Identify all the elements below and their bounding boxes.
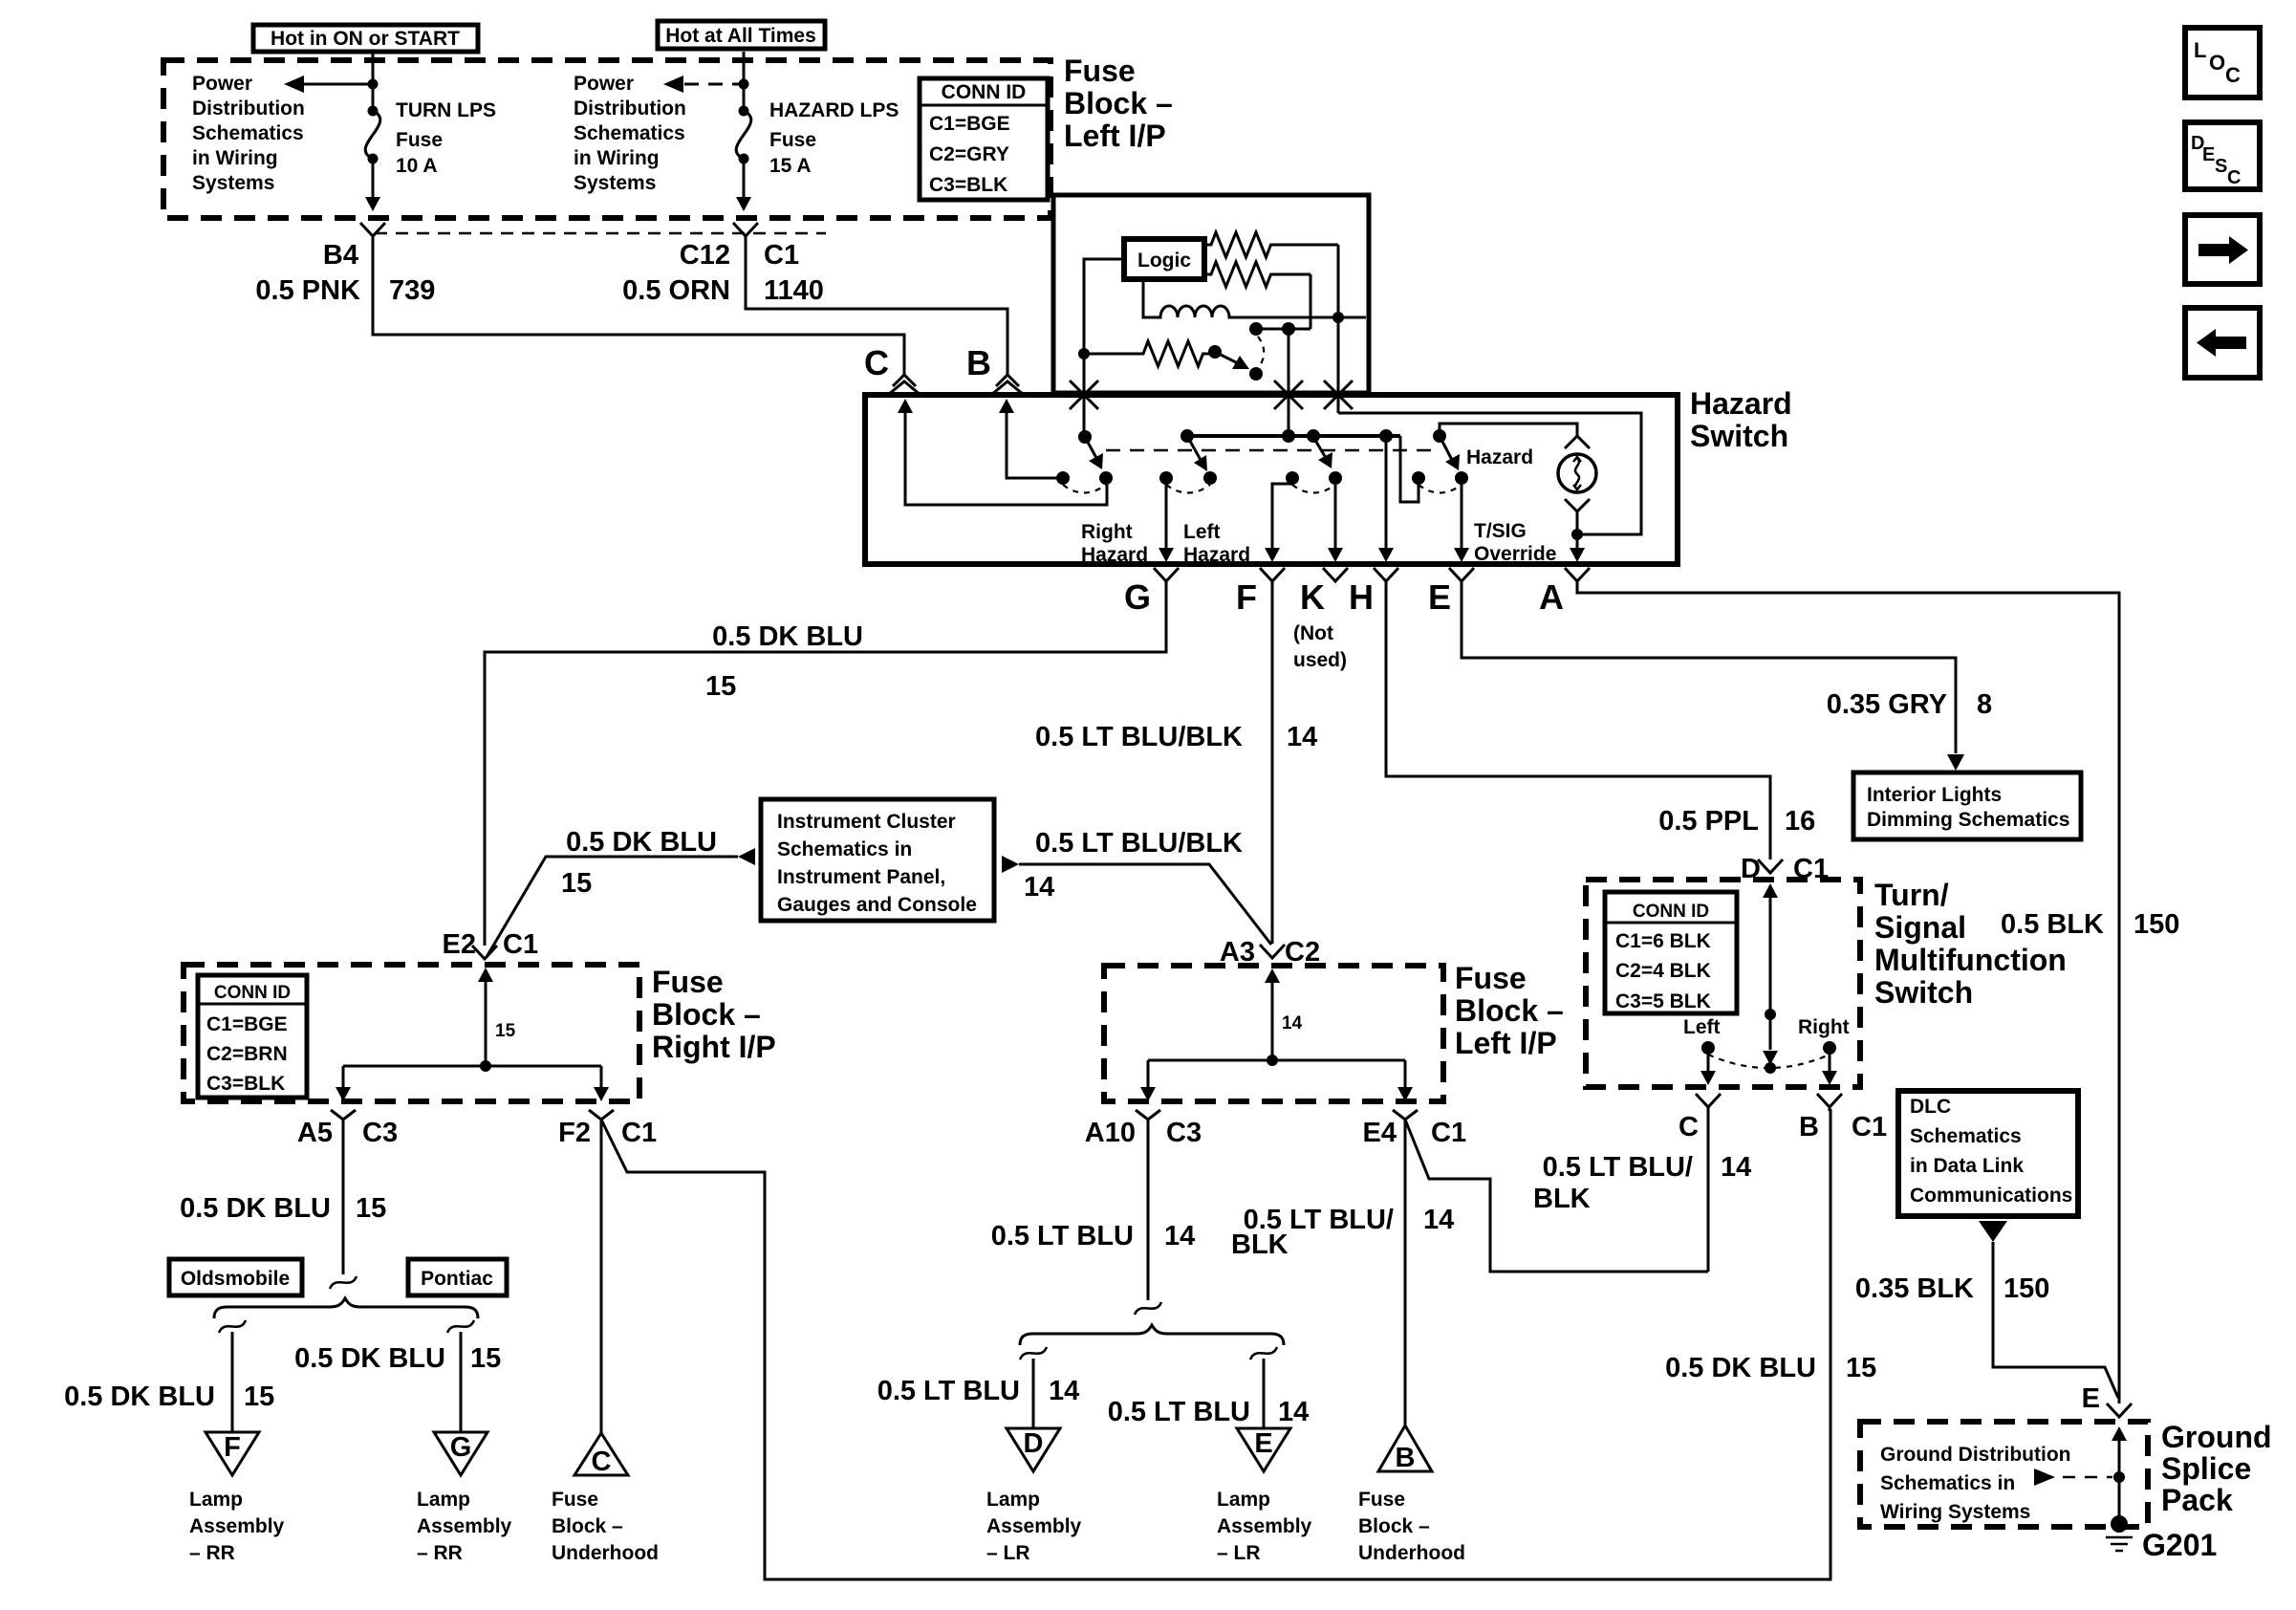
connector C into hazard switch	[888, 375, 921, 395]
svg-text:Underhood: Underhood	[1358, 1542, 1465, 1564]
resistor R2	[1204, 262, 1310, 287]
svg-text:C1: C1	[621, 1118, 657, 1148]
wiper pivot dot	[1208, 345, 1222, 359]
svg-text:CONN ID: CONN ID	[1633, 902, 1709, 922]
svg-text:O: O	[2209, 51, 2225, 75]
svg-text:Block –: Block –	[1455, 993, 1564, 1028]
svg-text:E: E	[2202, 144, 2215, 165]
junction dot	[1267, 1055, 1278, 1066]
dashed ground distribution arrow	[2034, 1469, 2112, 1486]
svg-text:E4: E4	[1363, 1118, 1397, 1148]
connector H	[1374, 568, 1398, 581]
svg-text:0.5 DK BLU: 0.5 DK BLU	[180, 1193, 331, 1224]
svg-text:E: E	[1254, 1428, 1272, 1459]
wire R2 right leg	[1310, 274, 1312, 329]
junction dot	[368, 79, 379, 90]
svg-text:H: H	[1349, 577, 1374, 617]
X crossing marker 1	[1070, 381, 1098, 409]
svg-text:C: C	[592, 1447, 612, 1477]
wiper dashed arc	[1258, 337, 1264, 367]
connector E4/C1	[1393, 1110, 1418, 1120]
svg-text:Left I/P: Left I/P	[1064, 119, 1166, 153]
fuse block left I/P dashed box	[163, 60, 1051, 218]
wire to lamp E (0.5 LT BLU 14)	[1263, 1359, 1266, 1428]
svg-text:15: 15	[470, 1343, 501, 1374]
hazard switch label	[1690, 386, 1792, 453]
svg-text:Distribution: Distribution	[192, 98, 305, 120]
brace RR lamps	[214, 1298, 478, 1318]
SW2 left contact	[1159, 471, 1173, 485]
connector A3/C2	[1260, 945, 1285, 958]
wire SW2 left contact to G	[1165, 478, 1168, 550]
connector F2/C1	[589, 1110, 614, 1120]
svg-text:Schematics: Schematics	[574, 122, 685, 144]
wire branch to power distribution (left arrow)	[284, 76, 373, 93]
svg-text:Pontiac: Pontiac	[421, 1268, 493, 1290]
connector G	[1154, 568, 1179, 581]
switch SW4 (hazard) arm	[1433, 429, 1446, 443]
svg-text:A5: A5	[297, 1118, 333, 1148]
mechanical link dashed line	[1106, 449, 1431, 452]
break squiggle A5	[330, 1276, 357, 1289]
svg-text:Lamp: Lamp	[1217, 1489, 1270, 1511]
connector F	[1260, 568, 1285, 581]
connector B into hazard switch	[991, 375, 1024, 395]
label lamp assembly RR (left)	[189, 1489, 285, 1564]
connector A	[1565, 568, 1590, 581]
switch SW2 arm	[1187, 436, 1201, 460]
svg-text:Assembly: Assembly	[189, 1515, 285, 1537]
dot relay node left	[1249, 322, 1263, 336]
svg-text:Right: Right	[1081, 521, 1133, 543]
svg-text:0.5 LT BLU: 0.5 LT BLU	[1108, 1397, 1250, 1427]
terminal arrows at bottom edge	[1159, 548, 1174, 562]
wire instrument cluster to A3	[1019, 864, 1271, 945]
break squiggle F branch	[219, 1320, 246, 1333]
svg-text:10 A: 10 A	[396, 155, 438, 177]
wire E2 inside fuse block	[478, 968, 516, 1066]
svg-text:Dimming Schematics: Dimming Schematics	[1867, 809, 2069, 831]
svg-text:A10: A10	[1085, 1118, 1136, 1148]
svg-text:Block –: Block –	[1064, 86, 1173, 120]
fuse block right I/P dashed box	[184, 965, 639, 1101]
svg-text:Assembly: Assembly	[417, 1515, 512, 1537]
svg-text:Assembly: Assembly	[1217, 1515, 1312, 1537]
resistor R1	[1204, 232, 1338, 257]
svg-text:Ground: Ground	[2161, 1420, 2272, 1454]
svg-text:T/SIG: T/SIG	[1474, 520, 1527, 542]
svg-text:Right I/P: Right I/P	[652, 1030, 776, 1064]
svg-text:C1: C1	[764, 240, 799, 271]
box Pontiac	[408, 1259, 507, 1295]
wire E4 branch to turn signal C (0.5 LT BLU/BLK 14)	[1405, 1120, 1708, 1272]
SW1 dashed arc	[1063, 485, 1106, 493]
svg-text:0.5 PPL: 0.5 PPL	[1658, 806, 1759, 837]
svg-text:E: E	[2082, 1383, 2100, 1414]
svg-text:B: B	[966, 343, 991, 382]
instrument cluster box	[761, 799, 994, 921]
svg-text:K: K	[1300, 577, 1325, 617]
connector A5/C3	[331, 1110, 356, 1120]
wire to lamp D (0.5 LT BLU 14)	[1032, 1359, 1035, 1428]
svg-text:BLK: BLK	[1533, 1184, 1591, 1214]
fuse block left I/P (2) dashed box	[1104, 966, 1443, 1101]
svg-text:C3=5 BLK: C3=5 BLK	[1615, 990, 1711, 1012]
turn switch dashed arc	[1708, 1055, 1830, 1068]
svg-text:Hot in ON or START: Hot in ON or START	[271, 28, 460, 50]
wire B down label (0.5 DK BLU 15)	[1829, 1107, 1831, 1111]
svg-text:Schematics in: Schematics in	[777, 838, 912, 860]
ground distribution text	[1880, 1444, 2070, 1523]
svg-text:F: F	[224, 1432, 241, 1463]
svg-text:Schematics: Schematics	[192, 122, 304, 144]
box Oldsmobile	[169, 1259, 302, 1295]
wire bus to SW4 left contact	[1400, 436, 1419, 502]
svg-text:Power: Power	[574, 73, 634, 95]
connector B	[1817, 1094, 1842, 1107]
svg-text:Distribution: Distribution	[574, 98, 686, 120]
svg-text:Gauges and Console: Gauges and Console	[777, 894, 977, 916]
svg-text:0.5 DK BLU: 0.5 DK BLU	[566, 827, 717, 858]
SW2 dashed arc	[1166, 485, 1210, 493]
SW1 right contact	[1099, 471, 1113, 485]
SW3 dashed arc	[1292, 485, 1335, 493]
SW4 left contact	[1412, 471, 1425, 485]
svg-text:Power: Power	[192, 73, 252, 95]
svg-text:16: 16	[1785, 806, 1815, 837]
svg-text:used): used)	[1293, 649, 1347, 671]
svg-text:– LR: – LR	[986, 1542, 1030, 1564]
svg-text:0.35 BLK: 0.35 BLK	[1855, 1273, 1974, 1304]
svg-text:C1: C1	[1431, 1118, 1466, 1148]
svg-text:0.5 ORN: 0.5 ORN	[622, 275, 730, 306]
svg-text:Fuse: Fuse	[396, 129, 443, 151]
svg-text:0.5 LT BLU: 0.5 LT BLU	[991, 1221, 1134, 1251]
CONN ID box 2	[198, 975, 307, 1098]
fuse block underhood triangle C	[574, 1433, 628, 1477]
wire from Hot at All Times down	[743, 52, 746, 197]
wire SW3 left contact to F	[1272, 480, 1292, 550]
connector E	[1449, 568, 1474, 581]
svg-text:0.5 DK BLU: 0.5 DK BLU	[64, 1382, 215, 1412]
svg-text:Logic: Logic	[1137, 250, 1191, 272]
bus junction dots	[1180, 429, 1194, 443]
svg-text:C1: C1	[1852, 1112, 1887, 1142]
switch SW1 arm	[1085, 437, 1096, 458]
connector E ground splice	[2107, 1403, 2132, 1417]
CONN ID box 1	[920, 78, 1048, 200]
wire left contact to C	[1707, 1048, 1710, 1071]
svg-text:Turn/: Turn/	[1874, 878, 1949, 912]
svg-text:C12: C12	[680, 240, 730, 271]
svg-text:E: E	[1428, 577, 1451, 617]
svg-text:15: 15	[705, 671, 736, 702]
break squiggle A10	[1135, 1302, 1161, 1315]
lamp branch lower break chevron	[1565, 499, 1590, 511]
switch SW1 pivot	[1078, 430, 1092, 444]
break squiggle E branch	[1250, 1347, 1277, 1360]
wire F terminal (0.5 LT BLU/BLK 14)	[1271, 581, 1274, 944]
label Fuse Block - Left I/P	[1064, 54, 1173, 153]
logic box U1	[1124, 239, 1204, 279]
svg-text:15: 15	[495, 1021, 516, 1041]
svg-text:0.35 GRY: 0.35 GRY	[1827, 689, 1947, 720]
arrow into instrument cluster	[738, 848, 755, 865]
wire split to A10 and E4	[1148, 1060, 1405, 1087]
svg-text:Switch: Switch	[1690, 419, 1788, 453]
svg-text:Hot at All Times: Hot at All Times	[665, 25, 816, 47]
SW1 left contact	[1056, 471, 1070, 485]
svg-text:C3: C3	[362, 1118, 398, 1148]
svg-text:14: 14	[1282, 1013, 1303, 1033]
svg-text:C1=BGE: C1=BGE	[206, 1013, 288, 1035]
svg-text:Override: Override	[1474, 543, 1556, 565]
svg-text:Splice: Splice	[2161, 1451, 2251, 1486]
wire SW3 right contact to K	[1334, 478, 1337, 550]
wire F2 down to fuse block underhood	[600, 1120, 603, 1433]
flasher unit inner box	[1053, 195, 1369, 393]
dot relay node right	[1282, 322, 1295, 336]
svg-text:C: C	[2227, 167, 2241, 188]
svg-text:14: 14	[1721, 1152, 1751, 1183]
lamp assembly LR triangle E	[1237, 1428, 1290, 1471]
lamp assembly LR triangle D	[1007, 1428, 1060, 1471]
lamp assembly RR triangle G	[434, 1432, 487, 1475]
switch bus wire	[1187, 434, 1400, 438]
svg-text:0.5 LT BLU: 0.5 LT BLU	[877, 1376, 1020, 1406]
svg-text:C2=GRY: C2=GRY	[929, 143, 1009, 165]
svg-text:14: 14	[1287, 722, 1317, 752]
svg-text:Lamp: Lamp	[189, 1489, 243, 1511]
wire B terminal inside	[999, 399, 1057, 478]
wire bus to H terminal	[1385, 436, 1388, 550]
svg-text:14: 14	[1278, 1397, 1309, 1427]
label Right Hazard	[1081, 521, 1148, 566]
svg-text:0.5 DK BLU: 0.5 DK BLU	[712, 621, 863, 652]
svg-text:G201: G201	[2142, 1528, 2217, 1562]
resistor R3 (timing)	[1084, 341, 1209, 366]
svg-text:CONN ID: CONN ID	[942, 81, 1027, 103]
svg-text:0.5 DK BLU: 0.5 DK BLU	[1665, 1353, 1816, 1383]
svg-text:Instrument Panel,: Instrument Panel,	[777, 866, 945, 888]
wire H terminal (0.5 PPL 16)	[1386, 581, 1770, 859]
junction dot R3 left	[1078, 348, 1090, 359]
svg-text:C1=BGE: C1=BGE	[929, 113, 1010, 135]
svg-text:– RR: – RR	[417, 1542, 463, 1564]
wire flasher feed down	[1337, 317, 1340, 413]
turn switch left contact	[1701, 1041, 1715, 1055]
svg-text:14: 14	[1164, 1221, 1195, 1251]
turn/signal multifunction switch dashed box	[1586, 880, 1860, 1087]
wire A3 inside fuse block	[1265, 968, 1303, 1060]
wire 0.5 PNK path to C	[373, 236, 904, 375]
lamp branch upper break chevron	[1565, 436, 1590, 448]
svg-text:Wiring Systems: Wiring Systems	[1880, 1501, 2030, 1523]
wire diagonal E2 to instrument cluster	[487, 857, 738, 957]
svg-text:G: G	[450, 1432, 472, 1463]
wire DLC to ground (0.35 BLK 150)	[1993, 1242, 2118, 1398]
svg-text:150: 150	[2004, 1273, 2049, 1304]
svg-text:Fuse: Fuse	[1358, 1489, 1405, 1511]
wire relay node	[1256, 328, 1310, 331]
svg-text:0.5 PNK: 0.5 PNK	[255, 275, 360, 306]
ground splice dot	[2111, 1515, 2128, 1533]
wire R1 to coil output	[1337, 245, 1340, 317]
svg-text:C1=6 BLK: C1=6 BLK	[1615, 930, 1711, 952]
wire lamp to A terminal	[1576, 511, 1579, 550]
svg-text:Schematics: Schematics	[1910, 1125, 2022, 1147]
arrow down into connector B4	[365, 197, 380, 211]
svg-text:14: 14	[1049, 1376, 1079, 1406]
svg-text:TURN LPS: TURN LPS	[396, 99, 496, 121]
svg-text:G: G	[1124, 577, 1151, 617]
svg-text:150: 150	[2134, 909, 2179, 940]
svg-text:Multifunction: Multifunction	[1874, 943, 2067, 977]
svg-text:Interior Lights: Interior Lights	[1867, 784, 2002, 806]
fuse HAZARD LPS 15A	[736, 99, 899, 177]
label fuse block underhood (right)	[1358, 1489, 1465, 1564]
svg-text:Switch: Switch	[1874, 975, 1973, 1010]
svg-text:Right: Right	[1798, 1016, 1850, 1038]
wire to lamp F (0.5 DK BLU 15)	[231, 1332, 234, 1432]
SW3 left contact	[1286, 471, 1299, 485]
wire flasher feed to lamp node	[1338, 413, 1641, 534]
junction dot	[480, 1060, 491, 1072]
svg-text:C1: C1	[503, 929, 538, 960]
SW4 right contact	[1455, 471, 1468, 485]
svg-text:15: 15	[356, 1193, 386, 1224]
svg-text:B: B	[1396, 1443, 1416, 1473]
label fuse block underhood (left)	[552, 1489, 659, 1564]
svg-text:D: D	[1024, 1428, 1044, 1459]
svg-text:CONN ID: CONN ID	[214, 983, 291, 1003]
break squiggle D branch	[1020, 1347, 1047, 1360]
svg-text:0.5 LT BLU/BLK: 0.5 LT BLU/BLK	[1035, 828, 1243, 859]
CONN ID box 3	[1605, 892, 1737, 1013]
X crossing marker 2	[1274, 381, 1303, 409]
svg-text:Left I/P: Left I/P	[1455, 1026, 1557, 1060]
fuse block underhood triangle B	[1378, 1425, 1432, 1473]
svg-text:B4: B4	[323, 240, 358, 271]
label Left Hazard	[1183, 521, 1250, 566]
wire into ground splice	[2112, 1426, 2127, 1524]
label Fuse Block - Left I/P	[1455, 961, 1564, 1060]
svg-text:Systems: Systems	[192, 172, 274, 194]
turn switch right contact	[1823, 1041, 1836, 1055]
svg-text:1140: 1140	[764, 275, 824, 306]
svg-text:Fuse: Fuse	[1455, 961, 1527, 995]
svg-text:Hazard: Hazard	[1466, 446, 1533, 468]
wire right contact to B	[1829, 1048, 1831, 1071]
arrow down into connector C12	[736, 197, 751, 211]
svg-text:15: 15	[244, 1382, 274, 1412]
svg-text:L: L	[2194, 38, 2206, 62]
svg-text:A: A	[1539, 577, 1564, 617]
svg-text:Fuse: Fuse	[769, 129, 816, 151]
svg-text:in Data Link: in Data Link	[1910, 1155, 2024, 1177]
wire logic left leg	[1084, 259, 1124, 431]
wire from Hot in ON box down	[372, 52, 375, 197]
power distribution text 2	[574, 73, 686, 194]
label Fuse Block - Right I/P	[652, 965, 776, 1064]
SW2 right contact	[1203, 471, 1217, 485]
wire A5 down (0.5 DK BLU 15)	[342, 1120, 345, 1274]
svg-text:C3=BLK: C3=BLK	[206, 1073, 285, 1095]
interior lights dimming box	[1853, 772, 2081, 839]
svg-text:C2=BRN: C2=BRN	[206, 1043, 288, 1065]
lamp assembly RR triangle F	[206, 1432, 259, 1475]
junction dot coil output	[1332, 312, 1344, 323]
svg-text:Underhood: Underhood	[552, 1542, 659, 1564]
svg-text:Left: Left	[1683, 1016, 1721, 1038]
svg-text:0.5 BLK: 0.5 BLK	[2001, 909, 2104, 940]
wiper contact dot	[1249, 367, 1263, 381]
wire A terminal (0.5 BLK 150)	[1577, 581, 2119, 1403]
svg-text:Block –: Block –	[1358, 1515, 1430, 1537]
svg-text:Oldsmobile: Oldsmobile	[181, 1268, 290, 1290]
svg-text:DLC: DLC	[1910, 1096, 1951, 1118]
connector D/C1	[1758, 859, 1783, 873]
dashed wire branch left arrow	[663, 76, 744, 93]
svg-text:F: F	[1236, 577, 1257, 617]
wire G terminal (0.5 DK BLU 15)	[485, 581, 1166, 946]
svg-text:Fuse: Fuse	[1064, 54, 1136, 88]
svg-text:in Wiring: in Wiring	[574, 147, 660, 169]
svg-text:Assembly: Assembly	[986, 1515, 1082, 1537]
svg-text:C: C	[2225, 63, 2241, 87]
svg-text:Ground Distribution: Ground Distribution	[1880, 1444, 2070, 1466]
connector K	[1323, 568, 1348, 581]
DLC schematics box	[1898, 1091, 2078, 1216]
label lamp assembly LR (left)	[986, 1489, 1082, 1564]
hazard switch outer box	[865, 395, 1678, 564]
svg-text:Systems: Systems	[574, 172, 656, 194]
box "Hot at All Times"	[658, 21, 825, 49]
arrow out of instrument cluster	[1002, 856, 1019, 873]
legend right arrow box	[2185, 215, 2260, 284]
svg-text:Hazard: Hazard	[1183, 544, 1250, 566]
svg-text:Instrument Cluster: Instrument Cluster	[777, 811, 956, 833]
label (Not used)	[1293, 622, 1347, 671]
wire to lamp G (0.5 DK BLU 15)	[460, 1332, 463, 1432]
svg-text:Left: Left	[1183, 521, 1221, 543]
junction dot ground distribution	[2113, 1471, 2125, 1483]
ground symbol G201	[2106, 1528, 2217, 1562]
wire A10 down (0.5 LT BLU 14)	[1147, 1120, 1150, 1300]
label T/SIG Override	[1474, 520, 1556, 565]
connector A10/C3	[1136, 1110, 1160, 1120]
switch SW3 arm	[1313, 437, 1326, 458]
connector C	[1696, 1094, 1721, 1107]
label lamp assembly RR (right)	[417, 1489, 512, 1564]
label lamp assembly LR (right)	[1217, 1489, 1312, 1564]
wire F2 branch to turn signal switch B (0.5 DK BLU 15)	[601, 1109, 1830, 1579]
svg-text:– RR: – RR	[189, 1542, 235, 1564]
svg-text:E2: E2	[443, 929, 476, 960]
wiper arm	[1215, 352, 1238, 363]
svg-text:0.5 LT BLU/BLK: 0.5 LT BLU/BLK	[1035, 722, 1243, 752]
svg-text:D: D	[1741, 854, 1761, 884]
svg-text:Fuse: Fuse	[652, 965, 724, 999]
wire E terminal (0.35 GRY 8)	[1462, 581, 1956, 753]
wire 0.5 ORN path to B	[746, 236, 1007, 375]
svg-text:S: S	[2215, 156, 2227, 177]
indicator lamp DS1	[1558, 454, 1596, 492]
svg-text:Pack: Pack	[2161, 1483, 2233, 1517]
svg-text:Fuse: Fuse	[552, 1489, 598, 1511]
svg-text:Communications: Communications	[1910, 1185, 2072, 1207]
svg-text:Hazard: Hazard	[1081, 544, 1148, 566]
